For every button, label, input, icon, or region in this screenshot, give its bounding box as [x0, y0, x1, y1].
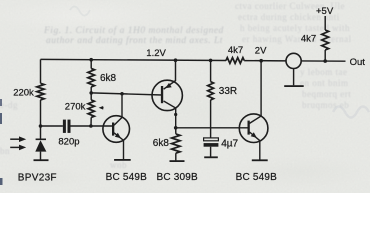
junction dot wire3: [174, 126, 178, 130]
paper mottling (decorative): [333, 107, 369, 118]
wire Q2 collector node to Q3 base: [176, 127, 248, 129]
label 4k7 (horizontal): [228, 45, 243, 56]
label 4k7 (right): [301, 33, 316, 44]
ground bar Q3 emitter: [252, 159, 268, 161]
ground bar test point: [284, 85, 304, 87]
junction dot 270k bottom: [89, 124, 93, 128]
label Out: [350, 57, 366, 68]
wire 2V node: [244, 60, 286, 62]
label BC 309B: [157, 172, 199, 183]
wire test point to ground: [293, 69, 295, 86]
junction dot Q2 collector exit: [174, 113, 177, 116]
junction dot 2V / Q3 collector: [259, 59, 263, 63]
resistor 4k7 (right): [322, 16, 329, 61]
capacitor 820p: [63, 120, 71, 133]
junction node Q2 emitter: [174, 58, 178, 62]
resistor 270k: [88, 93, 94, 126]
resistor 6k8 (second): [172, 128, 180, 161]
label 1.2V: [146, 48, 166, 59]
junction node 6k8 top: [89, 58, 93, 62]
label 6k8 (second): [153, 138, 170, 149]
junction dot wire1 left: [89, 91, 93, 95]
select-on-test arrow at 270k: [99, 106, 104, 110]
label 4u7: [221, 138, 238, 149]
label 220k: [13, 87, 34, 98]
label 2V: [255, 45, 267, 56]
photodiode BPV23F: [35, 126, 46, 160]
resistor 33R: [208, 60, 214, 99]
transistor Q3 BC 549B: [239, 61, 268, 160]
wire Out: [301, 60, 345, 62]
junction node 33R top: [209, 59, 213, 63]
label BC 549B (Q1): [106, 172, 148, 183]
ground bar 4u7: [204, 156, 218, 158]
resistor 4k7 (horizontal): [226, 58, 244, 64]
wire photodiode node to 820p: [41, 125, 63, 127]
light arrow 1: [10, 136, 26, 142]
label BC 549B (Q3): [236, 172, 278, 183]
label 270k: [65, 102, 86, 113]
label 33R: [219, 86, 237, 97]
resistor 220k: [37, 59, 44, 126]
transistor Q1 BC 549B: [103, 94, 130, 160]
junction dot photodiode node: [39, 124, 43, 128]
junction dot Q1 collector: [120, 92, 124, 96]
light arrow 2: [10, 145, 26, 151]
transistor Q2 BC 309B: [152, 60, 182, 128]
junction dot Out / 4k7: [323, 59, 327, 63]
ground bar 6k8 (second): [170, 160, 185, 162]
test point circle: [286, 53, 301, 68]
edge marks (decorative): [0, 99, 2, 106]
wire 1.2V supply rail: [41, 59, 227, 60]
label BPV23F: [18, 173, 57, 184]
label +5V: [316, 6, 334, 17]
capacitor 4u7 electrolytic: [204, 138, 219, 157]
label 6k8 (first): [100, 73, 117, 84]
wire 33R to 4u7: [210, 100, 212, 138]
label 820p: [58, 137, 79, 148]
ground bar photodiode: [34, 159, 49, 161]
ground bar Q1 emitter: [114, 159, 131, 161]
wire node A to Q2 base: [91, 93, 162, 95]
wire 820p to Q1 base: [71, 125, 113, 127]
resistor 6k8 (first): [88, 60, 95, 93]
